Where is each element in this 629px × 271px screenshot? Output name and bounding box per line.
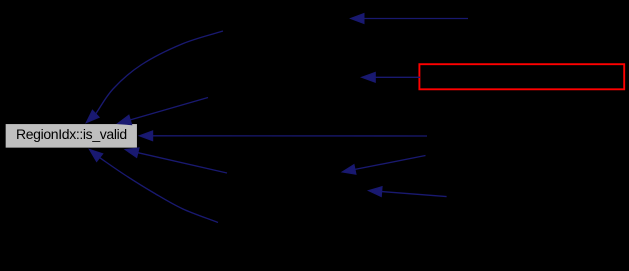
wire edge G (bottom curve into node bottom-left) [89,149,218,222]
node (truncated, red outline) [419,64,624,89]
wire edge F (straight line into node top-right) [118,98,209,125]
node RegionIdx::is_valid (main node, grey filled) [5,123,138,148]
wire edge E (long horizontal into node right) [139,131,427,141]
svg-text:RegionIdx::is_valid: RegionIdx::is_valid [16,126,127,142]
wire edge F2 (line into node bottom-right) [125,148,227,173]
wire edge H (arrow toward middle-left invisible node) [342,156,426,175]
wire edge A (top horizontal arrow) [351,14,469,24]
wire edge B (arrow from red node) [362,72,421,82]
wire edge C (big top curve into node top-left) [86,31,223,123]
wire edge I (lower arrow toward invisible node) [368,187,446,197]
